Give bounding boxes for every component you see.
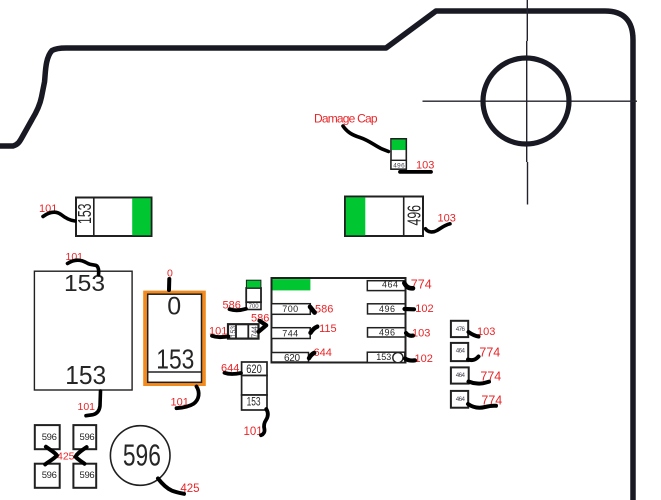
damaged capacitor pad box — [391, 160, 406, 169]
capacitor 496 green band — [346, 197, 366, 235]
IC U1 pin box 744 — [272, 328, 311, 339]
leader wire Damage Cap — [343, 126, 389, 152]
svg-text:620: 620 — [246, 364, 262, 376]
capacitor 496 divider — [403, 197, 405, 237]
test point box 464a — [451, 343, 468, 361]
IC U1 pin box 620 — [272, 353, 309, 363]
svg-text:102: 102 — [415, 303, 433, 315]
svg-text:596: 596 — [123, 438, 161, 473]
svg-text:0: 0 — [167, 293, 181, 321]
svg-text:153: 153 — [376, 352, 391, 362]
capacitor 153 (top-left) body — [76, 198, 152, 237]
leader wire pads left V — [45, 447, 57, 465]
svg-text:596: 596 — [80, 470, 95, 481]
svg-text:153: 153 — [75, 204, 95, 225]
IC U1 pin box 700 — [272, 304, 311, 315]
leader wire J1 bottom to 101 — [86, 391, 101, 416]
svg-text:476: 476 — [456, 326, 466, 333]
IC U1 body (large central box) — [272, 278, 406, 363]
leader wire 101 to J1 top — [68, 260, 99, 275]
leader hook 586 — [259, 321, 267, 332]
small cap 700 pad box — [246, 302, 261, 309]
highlighted component lower divider — [148, 371, 202, 373]
test point box 476 — [451, 321, 468, 337]
IC U1 green corner — [273, 279, 311, 290]
mounting hole circle — [483, 58, 569, 144]
svg-text:464: 464 — [456, 348, 466, 355]
svg-text:103: 103 — [416, 160, 434, 172]
svg-text:496: 496 — [404, 205, 424, 226]
svg-text:103: 103 — [438, 212, 456, 224]
pad box 596 top-right — [73, 425, 96, 449]
IC U1 pin box 496b — [368, 328, 406, 337]
pad box 596 bottom-left — [35, 464, 60, 488]
via circle 596 — [110, 426, 170, 486]
damaged capacitor green band — [392, 140, 406, 151]
crosshair vertical line middle — [526, 41, 528, 162]
cap stack bottom box — [242, 395, 267, 410]
leader wire via-425 — [158, 479, 184, 494]
svg-text:425: 425 — [57, 451, 75, 463]
small cap 700 (tall) body — [246, 288, 261, 302]
svg-text:102: 102 — [415, 353, 433, 365]
leader underline 586 to tall cap — [230, 309, 247, 310]
leader wire orange comp to 101 — [177, 387, 199, 409]
test point box 464c — [451, 391, 468, 408]
leader underline 101 to pack — [212, 336, 229, 337]
IC U1 pin box 496a — [368, 304, 406, 314]
svg-text:700: 700 — [249, 304, 260, 310]
svg-text:153: 153 — [247, 395, 261, 409]
capacitor 153 green band — [132, 198, 151, 235]
connector J1 body (big left box) — [34, 271, 132, 390]
test point box 464b — [451, 367, 469, 383]
svg-text:464: 464 — [456, 372, 466, 379]
cap stack middle box — [242, 376, 267, 396]
leader tick 496a-102 — [405, 307, 415, 311]
svg-text:744: 744 — [282, 328, 298, 338]
svg-text:464: 464 — [382, 280, 398, 290]
cap stack 620/153 top box — [242, 362, 267, 376]
pin circle — [393, 353, 403, 363]
leader tick 153-102 — [405, 359, 415, 361]
svg-text:153: 153 — [156, 344, 194, 375]
svg-text:496: 496 — [379, 328, 395, 338]
svg-text:496: 496 — [393, 162, 405, 169]
svg-text:153: 153 — [65, 360, 106, 390]
leader tick 620-644 — [309, 353, 314, 358]
crosshair vertical line lower — [527, 162, 529, 205]
svg-text:596: 596 — [42, 432, 57, 443]
leader underline 644 to stack — [225, 373, 242, 374]
leader wire 0 tick — [167, 279, 171, 290]
capacitor 496 (top-right) body — [345, 197, 423, 237]
leader tick 464-774 — [404, 283, 413, 288]
svg-text:596: 596 — [80, 432, 95, 443]
resistor pack right divider — [247, 324, 249, 338]
leader tick tp476-103 — [469, 332, 479, 337]
IC U1 pin box 153 — [367, 352, 405, 362]
leader wire tp464c-774 — [468, 404, 496, 408]
svg-text:774: 774 — [479, 345, 500, 359]
svg-text:103: 103 — [412, 328, 430, 340]
leader wire 101 to cap 153 — [43, 212, 75, 221]
svg-text:596: 596 — [42, 470, 57, 481]
leader wire tp464b-774 — [469, 382, 490, 384]
crosshair horizontal line — [423, 100, 638, 102]
leader wire pads right V — [76, 447, 87, 464]
svg-text:Damage Cap: Damage Cap — [314, 112, 378, 126]
damaged capacitor body — [391, 139, 406, 169]
leader tick 700-586 — [310, 307, 315, 313]
resistor pack 153/744 body — [228, 324, 259, 338]
svg-text:464: 464 — [456, 396, 466, 403]
leader wire cap 496 to 103 — [426, 224, 451, 232]
svg-text:700: 700 — [282, 304, 298, 314]
svg-text:620: 620 — [284, 353, 300, 364]
IC U1 pin box 464 — [367, 281, 405, 291]
svg-text:101: 101 — [78, 401, 96, 413]
capacitor 153 divider — [93, 198, 95, 237]
svg-text:586: 586 — [315, 304, 333, 316]
highlighted component (orange) outer ring — [145, 293, 204, 385]
resistor pack left divider — [235, 324, 237, 338]
small cap 700 green band — [246, 280, 261, 288]
leader wire tp464a-774 — [468, 357, 479, 361]
highlighted component inner body — [148, 294, 202, 382]
pad box 596 bottom-right — [73, 464, 96, 488]
leader wire stack to 101 — [261, 409, 268, 435]
leader underline (damaged cap) — [400, 170, 431, 174]
leader tick 496b-103 — [406, 333, 413, 336]
pad box 596 top-left — [35, 425, 60, 449]
svg-text:496: 496 — [379, 304, 395, 314]
leader tick 744-115 — [311, 327, 318, 333]
crosshair vertical line upper — [526, 0, 528, 41]
svg-text:115: 115 — [319, 323, 337, 335]
